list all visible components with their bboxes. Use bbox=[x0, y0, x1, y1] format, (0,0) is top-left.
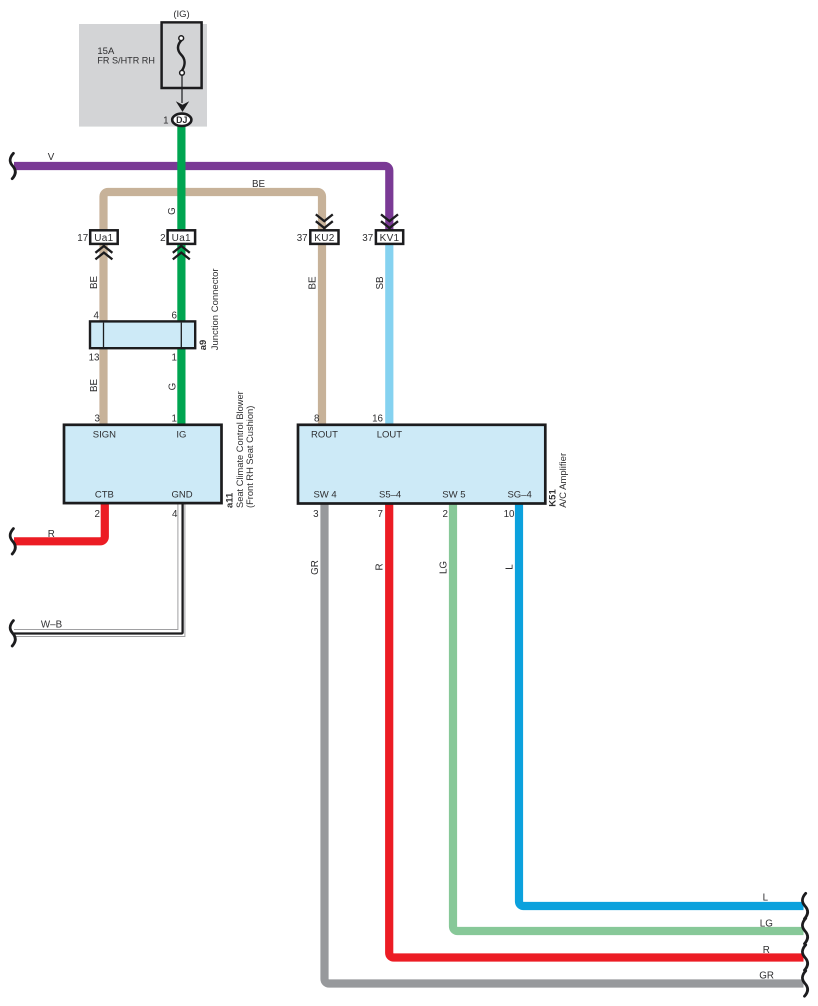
brace right of wire GR bbox=[802, 971, 807, 996]
connector Ua1 (pin 17) bbox=[90, 230, 118, 244]
svg-text:ROUT: ROUT bbox=[311, 430, 338, 441]
brace left of wire V bbox=[10, 153, 15, 178]
svg-text:3: 3 bbox=[313, 509, 319, 520]
wire G (green) bbox=[177, 120, 185, 426]
svg-text:SW 5: SW 5 bbox=[442, 490, 465, 501]
svg-text:L: L bbox=[505, 564, 516, 570]
fuse block gray panel bbox=[79, 24, 207, 127]
block a11 Seat Climate Control Blower bbox=[64, 425, 222, 503]
svg-text:SW 4: SW 4 bbox=[313, 490, 336, 501]
svg-text:2: 2 bbox=[95, 509, 100, 520]
brace left of wire R bbox=[10, 529, 15, 554]
svg-text:BE: BE bbox=[89, 379, 100, 393]
wire R (red) from S5-4 bbox=[389, 503, 803, 958]
svg-text:SG–4: SG–4 bbox=[507, 490, 531, 501]
chevrons above KV1 bbox=[381, 214, 398, 230]
svg-text:2: 2 bbox=[160, 233, 165, 244]
fuse lead line bbox=[181, 75, 183, 103]
svg-text:3: 3 bbox=[95, 414, 101, 425]
svg-text:LOUT: LOUT bbox=[377, 430, 403, 441]
svg-text:4: 4 bbox=[172, 509, 178, 520]
wire W-B outer edge line bbox=[14, 503, 185, 637]
connector KV1 bbox=[376, 230, 403, 244]
svg-text:6: 6 bbox=[171, 311, 177, 322]
svg-text:37: 37 bbox=[362, 233, 373, 244]
svg-text:Ua1: Ua1 bbox=[94, 233, 113, 244]
svg-text:DJ: DJ bbox=[176, 115, 187, 125]
block K51 A/C Amplifier bbox=[298, 425, 545, 504]
svg-text:GR: GR bbox=[759, 971, 774, 982]
svg-text:17: 17 bbox=[77, 233, 88, 244]
connector Ua1 (pin 2) bbox=[168, 230, 196, 244]
wire BE (beige) upper run bbox=[104, 192, 323, 231]
chevrons below Ua1 (pin 17) bbox=[95, 244, 112, 259]
wire L (blue) from SG-4 bbox=[519, 503, 804, 906]
connector KU2 bbox=[310, 230, 338, 244]
wire GR (gray) from SW 4 bbox=[325, 503, 804, 984]
svg-text:V: V bbox=[48, 152, 55, 163]
wire W-B black stripe bbox=[14, 503, 183, 634]
svg-text:FR S/HTR RH: FR S/HTR RH bbox=[97, 56, 155, 67]
svg-text:L: L bbox=[763, 892, 769, 903]
wire SB (sky blue) bbox=[385, 243, 393, 425]
brace right of wire R bbox=[802, 945, 807, 970]
svg-text:4: 4 bbox=[94, 311, 100, 322]
svg-text:BE: BE bbox=[308, 276, 319, 290]
svg-text:a9: a9 bbox=[198, 340, 209, 351]
svg-text:1: 1 bbox=[172, 353, 177, 364]
svg-text:(Front RH Seat Cushion): (Front RH Seat Cushion) bbox=[245, 406, 255, 508]
svg-text:16: 16 bbox=[372, 414, 383, 425]
chevrons above KU2 bbox=[316, 214, 333, 230]
svg-text:W–B: W–B bbox=[41, 620, 63, 631]
svg-text:GND: GND bbox=[171, 489, 192, 500]
svg-text:G: G bbox=[167, 383, 178, 391]
fuse bottom terminal circle bbox=[180, 70, 185, 75]
svg-text:G: G bbox=[167, 207, 178, 215]
svg-text:37: 37 bbox=[297, 233, 308, 244]
wire LG (light green) from SW 5 bbox=[453, 503, 804, 931]
svg-text:7: 7 bbox=[378, 509, 383, 520]
svg-text:R: R bbox=[763, 945, 770, 956]
chevrons below Ua1 (pin 2) bbox=[173, 244, 190, 259]
svg-text:KU2: KU2 bbox=[314, 233, 334, 244]
wire W-B inner edge line bbox=[14, 503, 178, 630]
svg-text:1: 1 bbox=[172, 414, 177, 425]
wire BE right lower segment bbox=[318, 243, 326, 425]
svg-text:1: 1 bbox=[163, 115, 168, 126]
svg-text:Ua1: Ua1 bbox=[172, 233, 191, 244]
svg-text:R: R bbox=[48, 529, 55, 540]
wire BE left lower segment bbox=[99, 243, 107, 425]
svg-text:IG: IG bbox=[176, 429, 186, 440]
wire R (red) from CTB bbox=[14, 503, 105, 541]
svg-text:10: 10 bbox=[504, 509, 515, 520]
brace right of wire LG bbox=[802, 918, 807, 943]
svg-text:SIGN: SIGN bbox=[93, 429, 116, 440]
connector DJ oval bbox=[172, 114, 191, 126]
svg-text:GR: GR bbox=[310, 560, 321, 575]
brace left of wire W-B bbox=[10, 621, 15, 646]
brace right of wire L bbox=[802, 893, 807, 918]
svg-text:BE: BE bbox=[89, 276, 100, 290]
wire V (violet) bbox=[14, 166, 389, 231]
svg-text:Seat Climate Control Blower: Seat Climate Control Blower bbox=[235, 391, 245, 508]
svg-text:8: 8 bbox=[314, 414, 320, 425]
fuse symbol rectangle bbox=[162, 22, 202, 88]
svg-text:(IG): (IG) bbox=[173, 9, 189, 20]
svg-text:13: 13 bbox=[89, 353, 100, 364]
svg-text:K51: K51 bbox=[547, 489, 558, 507]
arrow into DJ bbox=[176, 101, 189, 112]
junction connector a9 bbox=[90, 321, 195, 348]
svg-text:R: R bbox=[375, 563, 386, 570]
svg-text:S5–4: S5–4 bbox=[379, 490, 401, 501]
fuse element S-curve bbox=[178, 40, 185, 70]
svg-text:LG: LG bbox=[760, 919, 773, 930]
svg-text:2: 2 bbox=[443, 509, 448, 520]
svg-text:BE: BE bbox=[252, 179, 266, 190]
svg-text:KV1: KV1 bbox=[380, 233, 400, 244]
fuse top terminal circle bbox=[179, 36, 184, 41]
svg-text:SB: SB bbox=[375, 276, 386, 290]
svg-text:Junction Connector: Junction Connector bbox=[210, 268, 221, 350]
svg-text:A/C Amplifier: A/C Amplifier bbox=[558, 453, 569, 508]
svg-text:LG: LG bbox=[439, 561, 450, 574]
svg-text:CTB: CTB bbox=[95, 489, 114, 500]
